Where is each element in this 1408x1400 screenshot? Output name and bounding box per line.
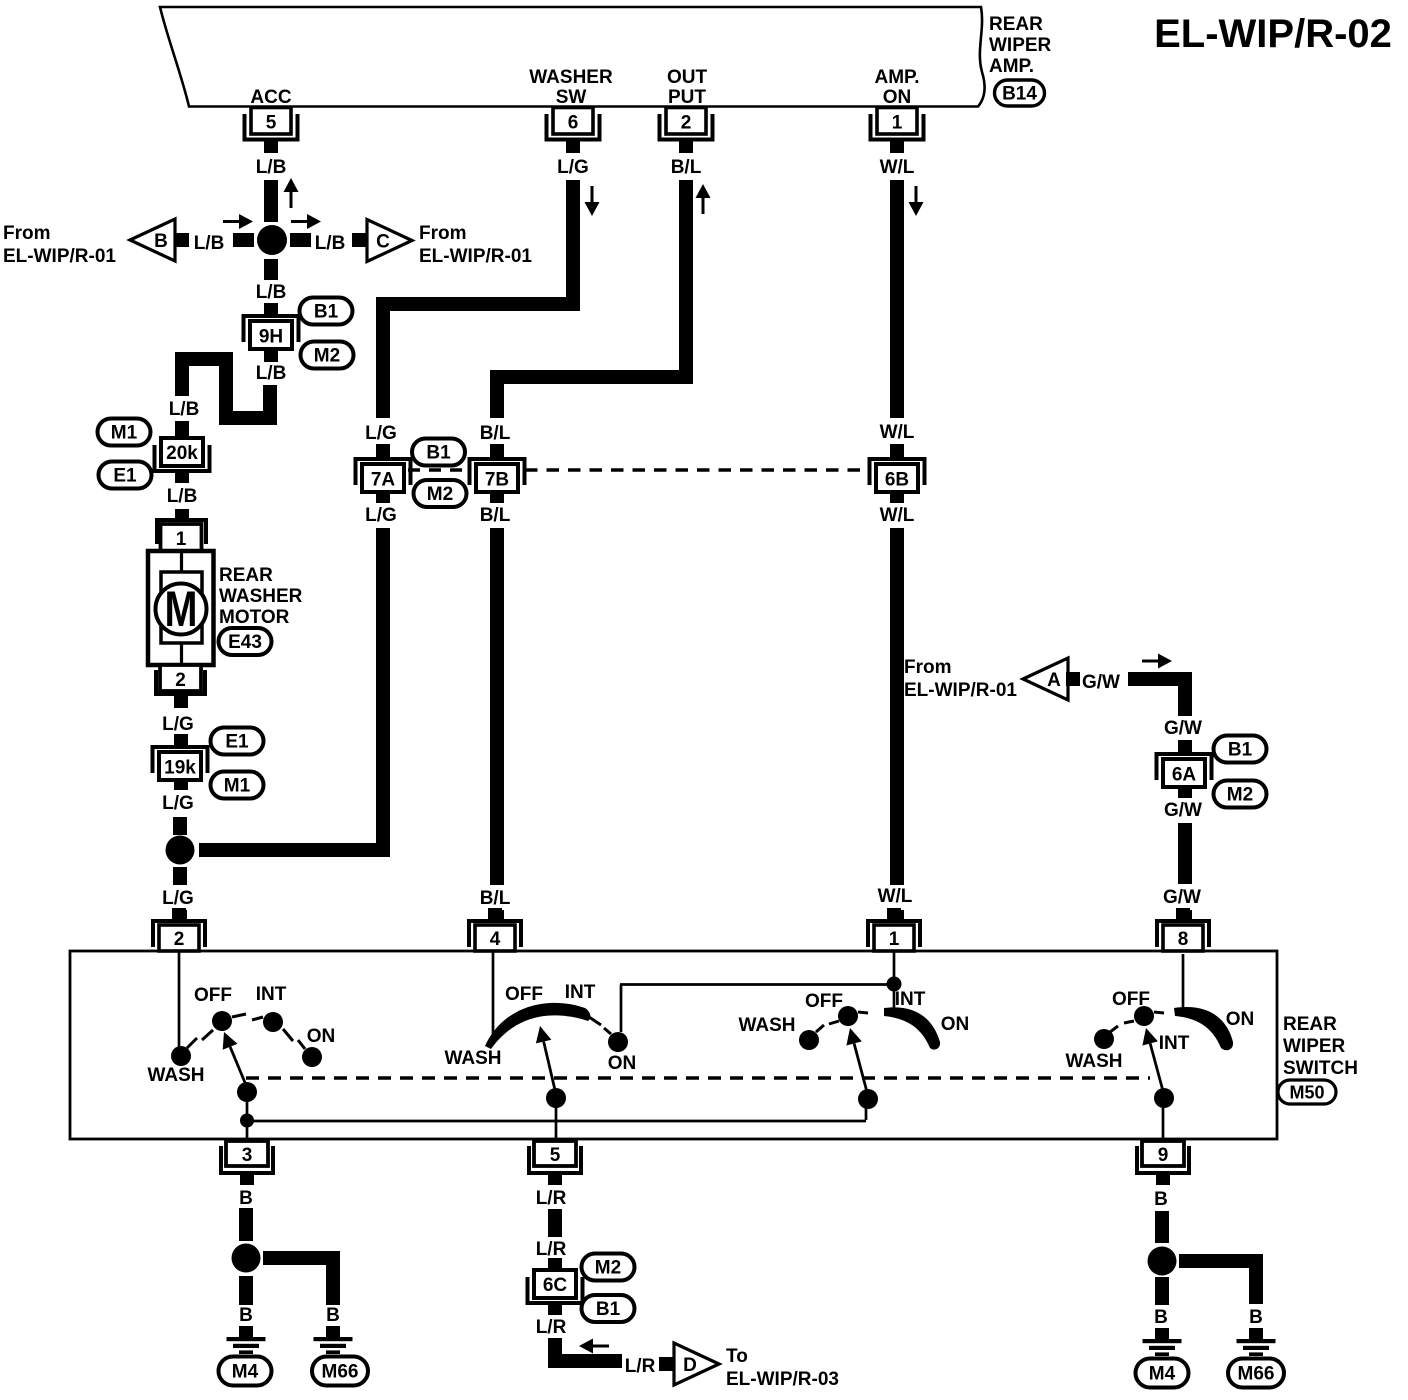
g3 OFF contact (829, 1006, 868, 1026)
g1 label OFF (194, 985, 232, 1006)
svg-text:L/B: L/B (256, 282, 287, 303)
svg-text:L/G: L/G (365, 505, 397, 526)
svg-text:M4: M4 (1149, 1364, 1176, 1385)
g1 OFF contact (202, 1011, 246, 1040)
svg-text:L/G: L/G (557, 157, 589, 178)
pin 2 (OUT PUT) of B14 (658, 108, 715, 154)
switch pin 1 (top) (866, 908, 922, 951)
label REAR WASHER MOTOR (219, 565, 303, 628)
g1 pivot to pin 3 lead (246, 1092, 249, 1141)
wire B branch to M66 ground (263, 1258, 333, 1305)
link bar g1 to g3 (247, 1120, 866, 1123)
label L/R below 6C (536, 1317, 567, 1338)
switch pin 8 (top) (1155, 908, 1211, 951)
svg-text:B/L: B/L (671, 157, 702, 178)
g2 ON contact (604, 1028, 628, 1052)
svg-text:M2: M2 (314, 346, 340, 367)
wire stub below 7A (376, 491, 390, 503)
wire L/R elbow to triangle D (555, 1338, 622, 1361)
svg-text:ACC: ACC (250, 87, 291, 108)
splice junction L/G (166, 836, 195, 865)
g4 label INT (1159, 1033, 1190, 1054)
wire stub below 19k (174, 779, 188, 790)
svg-text:L/G: L/G (365, 423, 397, 444)
svg-text:OFF: OFF (505, 984, 543, 1005)
svg-text:INT: INT (256, 984, 287, 1005)
wire L/B zigzag 9H to fuse 20k (182, 359, 270, 418)
svg-text:7A: 7A (371, 470, 396, 491)
stub at triangle C (352, 233, 366, 247)
svg-text:B: B (1154, 1307, 1168, 1328)
label REAR WIPER SWITCH (1283, 1014, 1358, 1079)
g1 label INT (256, 984, 287, 1005)
switch pin 2 (top) (151, 908, 207, 951)
ground symbol (M4 left) (227, 1326, 266, 1354)
g2 label ON (608, 1053, 637, 1074)
label L/R below pin 5 (536, 1188, 567, 1209)
svg-text:5: 5 (266, 113, 277, 134)
arrow down beside L/G wire (585, 186, 600, 216)
svg-text:6: 6 (568, 113, 579, 134)
svg-text:6A: 6A (1172, 765, 1197, 786)
arrow up beside L/B wire (284, 178, 299, 208)
g4 lead from pin 8 (1182, 954, 1185, 1009)
svg-text:L/R: L/R (536, 1317, 567, 1338)
svg-text:7B: 7B (485, 470, 509, 491)
svg-text:SW: SW (556, 87, 587, 108)
g2 label INT (565, 982, 596, 1003)
g3 wiper arrow (846, 1028, 867, 1092)
pin label OUT PUT (667, 67, 708, 108)
splice junction B (left) (232, 1244, 261, 1273)
svg-text:B1: B1 (314, 302, 339, 323)
svg-text:W/L: W/L (880, 157, 915, 178)
g4 contact arc INT-ON (1174, 1007, 1233, 1050)
svg-text:M1: M1 (224, 776, 251, 797)
label B below pin 9 (1154, 1189, 1168, 1210)
svg-text:L/B: L/B (315, 233, 346, 254)
svg-text:E1: E1 (225, 732, 249, 753)
svg-text:B/L: B/L (480, 423, 511, 444)
g4 label ON (1226, 1009, 1255, 1030)
g4 label WASH (1066, 1051, 1123, 1072)
wire stub into 9H (264, 303, 278, 315)
wire L/B 20k to motor (175, 471, 189, 483)
ground symbol (M66 left) (314, 1326, 353, 1354)
splice junction B (right) (1148, 1247, 1177, 1276)
g4 OFF contact (1124, 1006, 1164, 1026)
g3 lead from pin 1 (893, 951, 896, 1008)
svg-text:EL-WIP/R-03: EL-WIP/R-03 (726, 1369, 839, 1390)
ground symbol (M4 right) (1143, 1328, 1182, 1356)
svg-text:9: 9 (1158, 1145, 1169, 1166)
arrow down beside W/L wire (909, 186, 924, 216)
arrow right (left wire) (223, 214, 253, 229)
wire stub below 6C (548, 1303, 562, 1315)
label L/G below motor (162, 714, 194, 735)
g3 label WASH (739, 1015, 796, 1036)
motor symbol M circle (156, 581, 207, 637)
wire L/G splice to switch pin 2 (173, 867, 187, 885)
g2 pivot (546, 1088, 566, 1108)
svg-text:L/B: L/B (169, 399, 200, 420)
svg-text:B1: B1 (426, 443, 451, 464)
wire W/L pin1 to 6B (890, 180, 904, 418)
g1 INT contact (252, 1012, 293, 1041)
dashes 7A to ovals (408, 468, 470, 471)
motor internal rect (161, 572, 202, 643)
svg-text:PUT: PUT (668, 87, 706, 108)
svg-text:G/W: G/W (1164, 800, 1202, 821)
label B/L (pin2) (671, 157, 702, 178)
connector code oval M2 (7A/7B) (414, 480, 467, 507)
g4 WASH contact (1094, 1026, 1118, 1049)
svg-text:W/L: W/L (880, 505, 915, 526)
svg-text:E1: E1 (113, 466, 137, 487)
svg-text:L/G: L/G (162, 714, 194, 735)
label B below pin 3 (239, 1188, 253, 1209)
wire G/W elbow to 6A (1128, 679, 1185, 716)
arrow left above L/R wire (579, 1339, 609, 1354)
label G/W (A) (1082, 672, 1120, 693)
label G/W above 6A (1164, 718, 1202, 739)
code oval E1 (19k) (211, 728, 264, 755)
svg-text:B1: B1 (596, 1299, 621, 1320)
code oval M1 (19k) (211, 772, 264, 799)
link bar riser to g3 pivot (865, 1104, 868, 1120)
pin label ACC (250, 87, 291, 108)
g2 contact arc OFF-INT (485, 1003, 601, 1049)
motor internal lead bottom (180, 643, 183, 665)
svg-text:M: M (165, 581, 198, 637)
ground symbol (M66 right) (1237, 1328, 1276, 1356)
g4 pivot (1154, 1088, 1174, 1108)
label B (M4 right) (1154, 1307, 1168, 1328)
svg-text:EL-WIP/R-01: EL-WIP/R-01 (3, 246, 116, 267)
g1 junction dot (240, 1114, 254, 1128)
svg-text:INT: INT (565, 982, 596, 1003)
svg-text:2: 2 (681, 113, 692, 134)
label REAR WIPER AMP (989, 14, 1052, 77)
svg-text:WASH: WASH (1066, 1051, 1123, 1072)
pin 1 (AMP. ON) of B14 (869, 108, 926, 154)
connector code oval B1 (7A/7B) (412, 439, 465, 466)
wire B/L pin2 elbow to 7B (497, 180, 686, 418)
label L/B above 9H (256, 282, 287, 303)
stub at triangle D (659, 1357, 673, 1371)
code oval E43 (219, 628, 272, 655)
rear wiper amp B14 unit outline (160, 7, 985, 107)
svg-text:WASH: WASH (739, 1015, 796, 1036)
connector code oval B1 (9H) (300, 298, 353, 325)
label W/L (pin1) (880, 157, 915, 178)
svg-text:6C: 6C (543, 1275, 568, 1296)
wire B splice to M4 ground (239, 1276, 253, 1305)
svg-text:L/G: L/G (162, 793, 194, 814)
svg-text:INT: INT (895, 989, 926, 1010)
svg-text:OFF: OFF (194, 985, 232, 1006)
ground code oval M66 (right) (1228, 1359, 1284, 1388)
wire stub into 6B (890, 444, 904, 457)
svg-text:G/W: G/W (1164, 718, 1202, 739)
label B/L above switch pin 4 (480, 888, 511, 909)
label L/G (pin6) (557, 157, 589, 178)
pin 5 (ACC) of B14 (243, 108, 300, 154)
connector 7B (468, 457, 527, 492)
g4 pivot to pin 9 lead (1162, 1098, 1165, 1141)
triangle D to EL-WIP/R-03 (674, 1343, 719, 1385)
g2 label WASH (445, 1048, 502, 1069)
ground code oval M66 (left) (312, 1357, 368, 1386)
svg-text:B: B (239, 1188, 253, 1209)
connector code oval B14 (995, 80, 1045, 106)
svg-text:M4: M4 (232, 1362, 259, 1383)
wire stub into 6A (1178, 740, 1192, 752)
label L/G above 7A (365, 423, 397, 444)
g1 pivot (237, 1082, 257, 1102)
svg-text:OFF: OFF (1112, 989, 1150, 1010)
label B (M66 right) (1249, 1307, 1263, 1328)
svg-text:5: 5 (550, 1145, 561, 1166)
connector code oval B1 (6A) (1214, 736, 1267, 763)
g3 pivot (858, 1089, 878, 1109)
wire B branch to M66 ground (right) (1179, 1261, 1256, 1304)
wire stub into switch pin 1 (890, 910, 904, 920)
svg-text:9H: 9H (259, 327, 283, 348)
wire stub below 6A (1178, 786, 1192, 798)
stub at triangle A (1066, 672, 1080, 686)
arrow right above G/W wire (1142, 654, 1172, 669)
svg-text:To: To (726, 1346, 748, 1367)
g2 label OFF (505, 984, 543, 1005)
svg-text:1: 1 (892, 113, 903, 134)
svg-text:M66: M66 (322, 1362, 359, 1383)
svg-text:19k: 19k (164, 758, 196, 779)
label L/B above 20k (169, 399, 200, 420)
svg-text:B: B (326, 1305, 340, 1326)
wire stub below 9H (264, 349, 278, 362)
svg-text:D: D (683, 1355, 697, 1376)
svg-text:L/R: L/R (536, 1239, 567, 1260)
svg-text:B1: B1 (1228, 740, 1253, 761)
splice junction L/B (257, 225, 287, 255)
g4 wiper arrow (1142, 1028, 1163, 1091)
wire B pin3 to splice (239, 1208, 253, 1241)
label To EL-WIP/R-03 (726, 1346, 839, 1390)
g4 label OFF (1112, 989, 1150, 1010)
wire L/B splice down to 9H (264, 259, 278, 280)
g1 ON contact (298, 1040, 322, 1067)
svg-text:From: From (419, 223, 467, 244)
svg-text:C: C (376, 232, 390, 253)
label L/B (left of splice) (194, 233, 225, 254)
svg-text:M2: M2 (595, 1258, 621, 1279)
svg-text:OFF: OFF (805, 991, 843, 1012)
label B (M66 left) (326, 1305, 340, 1326)
svg-text:AMP.: AMP. (874, 67, 919, 88)
connector 9H (242, 314, 301, 349)
label L/B (256, 157, 287, 178)
svg-text:EL-WIP/R-01: EL-WIP/R-01 (904, 680, 1017, 701)
label L/B above motor (167, 486, 198, 507)
switch pin 5 (bottom) (527, 1141, 583, 1185)
svg-text:WASH: WASH (445, 1048, 502, 1069)
svg-text:8: 8 (1178, 929, 1189, 950)
g3 junction dot (887, 977, 902, 992)
wire L/B splice to triangle C (290, 233, 311, 247)
svg-text:2: 2 (174, 929, 185, 950)
pin label AMP. ON (874, 67, 919, 108)
svg-text:20k: 20k (166, 443, 198, 464)
svg-text:ON: ON (941, 1014, 970, 1035)
svg-text:G/W: G/W (1082, 672, 1120, 693)
wire L/G to splice (173, 817, 187, 835)
rear wiper switch M50 body (70, 951, 1277, 1139)
svg-text:MOTOR: MOTOR (219, 607, 290, 628)
svg-text:L/G: L/G (162, 888, 194, 909)
label W/L above 6B (880, 422, 915, 443)
svg-text:ON: ON (883, 87, 912, 108)
svg-text:3: 3 (242, 1145, 253, 1166)
svg-text:OUT: OUT (667, 67, 708, 88)
g2 ON to g3 link lead (620, 985, 893, 1033)
wire stub into switch pin 2 (173, 910, 187, 920)
label W/L above switch pin 1 (878, 886, 913, 907)
svg-text:2: 2 (175, 670, 186, 691)
wire stub into switch pin 8 (1178, 910, 1192, 921)
label L/G above switch pin 2 (162, 888, 194, 909)
g1 label ON (307, 1026, 336, 1047)
svg-text:B: B (1249, 1307, 1263, 1328)
g3 contact arc INT-ON (884, 1007, 940, 1049)
svg-text:E43: E43 (228, 632, 262, 653)
wire stub below motor (174, 696, 188, 708)
triangle B from EL-WIP/R-01 (130, 219, 175, 261)
label L/R above 6C (536, 1239, 567, 1260)
wire stub into 20k (175, 421, 189, 438)
svg-text:L/B: L/B (167, 486, 198, 507)
wire L/B pin5 to splice (264, 180, 278, 222)
g2 pivot to pin 5 lead (555, 1098, 558, 1141)
svg-text:A: A (1047, 670, 1061, 691)
svg-text:SWITCH: SWITCH (1283, 1058, 1358, 1079)
label From EL-WIP/R-01 (A) (904, 657, 1017, 701)
label G/W below 6A (1164, 800, 1202, 821)
stub at triangle B (176, 233, 189, 247)
svg-text:L/B: L/B (194, 233, 225, 254)
svg-text:REAR: REAR (219, 565, 273, 586)
svg-text:WIPER: WIPER (989, 35, 1052, 56)
connector code oval M2 (6C) (582, 1254, 635, 1281)
arrow right (right wire) (291, 214, 321, 229)
svg-text:L/R: L/R (625, 1356, 656, 1377)
connector code oval M2 (6A) (1214, 781, 1267, 808)
motor pin 1 bracket (155, 518, 208, 544)
code oval M1 (20k) (98, 419, 151, 446)
wire stub into switch pin 4 (490, 910, 504, 920)
motor pin 1 box (161, 524, 202, 551)
svg-text:L/R: L/R (536, 1188, 567, 1209)
label L/R at triangle D (625, 1356, 656, 1377)
connector 6C (526, 1270, 585, 1305)
connector 7A (354, 457, 413, 492)
g3 label INT (895, 989, 926, 1010)
svg-text:M2: M2 (427, 484, 453, 505)
svg-text:L/B: L/B (256, 157, 287, 178)
svg-text:B/L: B/L (480, 505, 511, 526)
svg-text:WASH: WASH (148, 1065, 205, 1086)
svg-text:1: 1 (176, 529, 187, 550)
svg-text:ON: ON (608, 1053, 637, 1074)
svg-text:From: From (904, 657, 952, 678)
svg-text:M50: M50 (1289, 1083, 1324, 1103)
g3 label ON (941, 1014, 970, 1035)
svg-text:M2: M2 (1227, 785, 1253, 806)
arrow up beside B/L wire (696, 184, 711, 214)
svg-text:EL-WIP/R-02: EL-WIP/R-02 (1154, 12, 1392, 56)
wire L/B triangle B to splice (233, 233, 254, 247)
svg-text:B: B (154, 231, 168, 252)
ground code oval M4 (left) (219, 1357, 272, 1386)
svg-text:WASHER: WASHER (529, 67, 613, 88)
svg-text:B/L: B/L (480, 888, 511, 909)
svg-text:W/L: W/L (878, 886, 913, 907)
svg-text:W/L: W/L (880, 422, 915, 443)
svg-text:B14: B14 (1002, 84, 1037, 105)
svg-text:B: B (1154, 1189, 1168, 1210)
wire stub into 7A (376, 444, 390, 457)
label L/G below 19k (162, 793, 194, 814)
wire B pin9 to splice (1155, 1211, 1169, 1243)
svg-text:L/B: L/B (256, 363, 287, 384)
fusible link 19k (151, 745, 210, 780)
svg-text:From: From (3, 223, 51, 244)
svg-text:4: 4 (490, 929, 501, 950)
triangle C from EL-WIP/R-01 (367, 220, 412, 262)
switch pin 3 (bottom) (219, 1141, 275, 1185)
wire B splice to M4 ground (right) (1155, 1277, 1169, 1305)
connector code oval M2 (9H) (301, 342, 354, 369)
wire stub below 7B (490, 491, 504, 503)
svg-text:WASHER: WASHER (219, 586, 303, 607)
g3 WASH contact (799, 1025, 824, 1050)
label B/L below 7B (480, 505, 511, 526)
label L/B (right of splice) (315, 233, 346, 254)
label B/L above 7B (480, 423, 511, 444)
svg-text:B: B (239, 1305, 253, 1326)
motor pin 2 box (160, 665, 201, 691)
svg-text:1: 1 (889, 929, 900, 950)
code oval E1 (20k) (99, 462, 152, 489)
label B (M4 left) (239, 1305, 253, 1326)
svg-text:AMP.: AMP. (989, 56, 1034, 77)
switch pin 9 (bottom) (1135, 1141, 1191, 1185)
wire stub below 6B (890, 491, 904, 503)
motor internal lead top (180, 551, 183, 575)
wire stub into 6C (548, 1258, 562, 1270)
pin 6 (WASHER SW) of B14 (545, 108, 602, 154)
svg-text:REAR: REAR (1283, 1014, 1337, 1035)
g2 wiper arrow (536, 1026, 555, 1090)
label L/G below 7A (365, 505, 397, 526)
g1 WASH contact (171, 1038, 197, 1066)
g1 wiper arrow (223, 1032, 246, 1085)
rear washer motor E43 body (148, 551, 214, 665)
wire stub into motor pin 1 (175, 509, 189, 520)
label From EL-WIP/R-01 (B) (3, 223, 116, 267)
svg-text:M66: M66 (1238, 1364, 1275, 1385)
wire B/L 7B to switch pin 4 (490, 528, 504, 885)
